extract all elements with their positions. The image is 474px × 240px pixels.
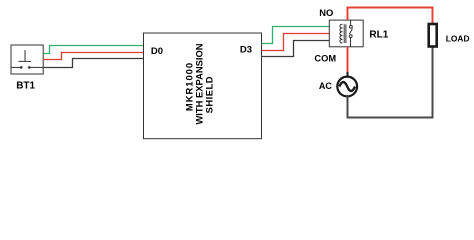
wire red COM to AC — [347, 47, 349, 72]
svg-text:LOAD: LOAD — [446, 33, 470, 43]
svg-text:D0: D0 — [151, 46, 163, 57]
wire red D3 to RL1 — [262, 34, 330, 51]
pushbutton BT1 — [11, 45, 43, 74]
relay RL1 — [329, 20, 363, 47]
svg-text:COM: COM — [314, 54, 336, 64]
wire black BT1 to D0 — [43, 59, 143, 68]
svg-text:BT1: BT1 — [16, 81, 35, 92]
wire green BT1 to D0 — [43, 46, 143, 54]
MKR1000 board U1 — [144, 33, 262, 139]
svg-text:D3: D3 — [240, 45, 252, 56]
AC source — [337, 72, 357, 101]
wire red BT1 to D0 — [43, 53, 143, 60]
svg-text:AC: AC — [319, 81, 332, 91]
wire green D3 to RL1 — [262, 27, 330, 44]
svg-text:NO: NO — [319, 7, 333, 18]
svg-text:SHIELD: SHIELD — [203, 76, 214, 113]
svg-text:RL1: RL1 — [369, 29, 388, 40]
load LOAD — [429, 24, 437, 47]
wire red NO to LOAD — [348, 8, 433, 25]
wire black D3 to RL1 — [262, 41, 330, 57]
wire black AC to LOAD — [348, 47, 433, 118]
label MKR1000 WITH EXPANSION SHIELD — [184, 43, 215, 124]
